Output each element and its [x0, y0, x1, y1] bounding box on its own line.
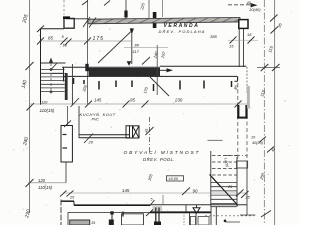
svg-text:388: 388	[210, 34, 217, 39]
svg-text:145: 145	[94, 98, 102, 103]
svg-text:120: 120	[38, 178, 46, 183]
svg-text:PVC: PVC	[92, 118, 100, 122]
svg-text:85: 85	[48, 36, 53, 41]
svg-text:±0,00: ±0,00	[169, 177, 179, 181]
svg-text:40: 40	[247, 0, 252, 5]
svg-text:5: 5	[151, 198, 153, 202]
svg-text:110(15): 110(15)	[38, 185, 53, 190]
svg-text:95: 95	[130, 98, 135, 103]
svg-text:DŘEV. PODLAHA: DŘEV. PODLAHA	[159, 29, 206, 34]
svg-text:OBÝVACÍ MÍSTNOST: OBÝVACÍ MÍSTNOST	[124, 149, 201, 156]
svg-text:110: 110	[41, 100, 48, 105]
svg-text:40(20): 40(20)	[252, 141, 264, 145]
svg-text:DŘEV. PODL.: DŘEV. PODL.	[143, 157, 175, 162]
svg-text:230: 230	[174, 98, 183, 103]
svg-text:90: 90	[193, 189, 198, 194]
svg-text:10: 10	[63, 43, 68, 48]
svg-text:KUCHYŇ. KOUT: KUCHYŇ. KOUT	[80, 112, 116, 117]
svg-text:25: 25	[69, 196, 75, 200]
svg-text:80: 80	[135, 43, 140, 48]
svg-text:10(40): 10(40)	[249, 7, 261, 12]
svg-text:175: 175	[93, 36, 104, 42]
svg-text:117: 117	[133, 49, 140, 54]
svg-text:145: 145	[122, 188, 130, 193]
svg-text:20: 20	[88, 140, 94, 145]
svg-text:15: 15	[229, 44, 234, 49]
svg-text:18: 18	[247, 32, 252, 37]
svg-text:110(15): 110(15)	[40, 108, 55, 113]
svg-text:25: 25	[245, 196, 251, 200]
